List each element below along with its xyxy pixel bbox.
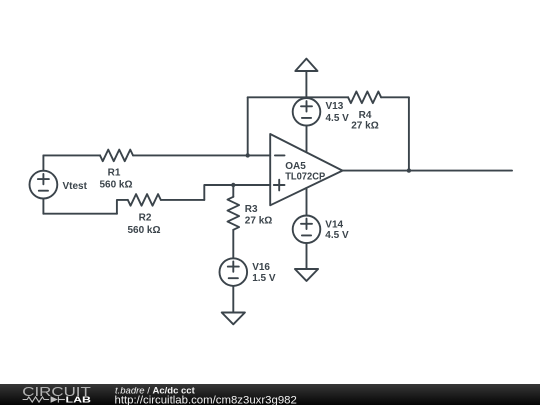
voltage source V16 — [220, 258, 248, 286]
wire R1 to op-amp inverting input — [133, 154, 270, 156]
footer bar — [0, 384, 540, 405]
power flag VCC — [305, 71, 307, 98]
wire R2 to step — [161, 199, 205, 201]
resistor R2 — [128, 194, 161, 206]
wire output — [343, 170, 513, 172]
wire feedback vertical right — [408, 97, 410, 170]
svg-text:TL072CP: TL072CP — [285, 172, 325, 183]
node non-inverting input junction — [231, 183, 235, 187]
svg-text:27 kΩ: 27 kΩ — [351, 121, 378, 132]
ground under V16 — [222, 313, 245, 325]
voltage source V14 — [293, 216, 321, 244]
svg-text:Vtest: Vtest — [63, 181, 88, 192]
svg-text:560 kΩ: 560 kΩ — [99, 179, 132, 190]
svg-text:R1: R1 — [108, 168, 121, 179]
wire feedback top to R4 — [248, 96, 348, 98]
wire R4 to right corner — [381, 96, 409, 98]
node inverting input junction — [246, 153, 250, 157]
wire R3 top stub — [232, 185, 234, 197]
svg-text:http://circuitlab.com/cm8z3uxr: http://circuitlab.com/cm8z3uxr3g982 — [115, 395, 297, 405]
svg-text:V14: V14 — [325, 219, 343, 230]
resistor R3 — [228, 197, 240, 230]
svg-text:1.5 V: 1.5 V — [252, 273, 276, 284]
op-amp OA5 — [270, 134, 342, 205]
wire V16 to ground — [232, 286, 234, 313]
svg-text:OA5: OA5 — [285, 161, 306, 172]
svg-text:R3: R3 — [245, 204, 258, 215]
wire top from Vtest to R1 — [43, 154, 100, 156]
wire R3 to V16 — [232, 230, 234, 258]
svg-text:LAB: LAB — [66, 395, 92, 404]
svg-text:4.5 V: 4.5 V — [326, 113, 350, 124]
svg-text:560 kΩ: 560 kΩ — [127, 225, 160, 236]
svg-text:27 kΩ: 27 kΩ — [245, 215, 272, 226]
wire V13 to op-amp V+ pin — [306, 126, 308, 153]
voltage source V13 — [293, 98, 321, 126]
wire step up to plus input — [204, 185, 233, 200]
svg-text:R4: R4 — [359, 110, 372, 121]
wire feedback vertical left — [247, 97, 249, 155]
op-amp plus input symbol — [274, 180, 285, 191]
node output junction — [407, 168, 411, 172]
wire V14 to ground — [306, 243, 308, 269]
voltage source Vtest — [30, 171, 58, 199]
svg-text:4.5 V: 4.5 V — [325, 230, 349, 241]
wire to op-amp non-inverting input — [233, 184, 270, 186]
resistor R1 — [100, 150, 133, 162]
svg-text:R2: R2 — [139, 213, 152, 224]
wire Vtest bottom stub — [42, 199, 44, 214]
ground under V14 — [295, 269, 318, 281]
resistor R4 — [348, 92, 381, 104]
wire Vtest top stub — [42, 155, 44, 170]
wire op-amp V- pin to V14 — [306, 188, 308, 216]
svg-text:V16: V16 — [252, 262, 270, 273]
wire bottom from Vtest — [43, 213, 117, 215]
op-amp minus input symbol — [275, 154, 285, 156]
wire step up to R2 — [117, 200, 128, 214]
svg-text:V13: V13 — [326, 101, 344, 112]
logo resistor-diode mark — [23, 396, 65, 402]
